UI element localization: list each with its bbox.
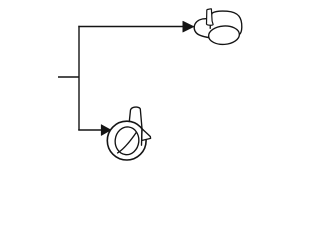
socket body silhouette xyxy=(210,11,242,34)
arrowhead to part 2 xyxy=(101,125,111,136)
inner ellipse xyxy=(114,126,141,156)
part 2: bulb socket, front view (bottom) xyxy=(107,107,150,160)
wire: bottom branch xyxy=(78,129,102,131)
wire: left tick xyxy=(58,76,79,78)
right flap xyxy=(142,129,151,141)
front face ellipse xyxy=(208,25,240,46)
part 1: bulb socket, side view (top right) xyxy=(194,9,242,46)
wire: top branch xyxy=(78,26,184,28)
outer ring circle xyxy=(107,121,146,160)
wire: vertical bracket line xyxy=(78,26,80,130)
inner rim arc xyxy=(118,132,137,153)
left lobe flange xyxy=(194,19,209,38)
top tab with side seam xyxy=(129,107,142,145)
top tab xyxy=(207,9,214,25)
arrowhead to part 1 xyxy=(183,21,194,32)
